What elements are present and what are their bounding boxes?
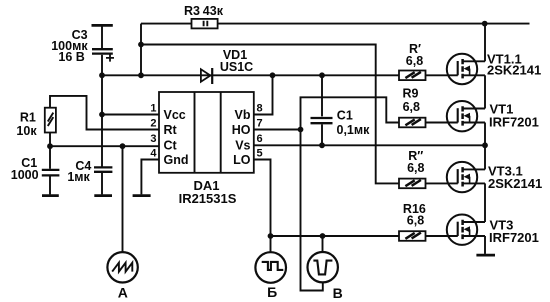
capacitor C1 1000: [42, 146, 60, 194]
svg-text:2SK2141: 2SK2141: [488, 176, 542, 191]
svg-text:HO: HO: [232, 123, 251, 137]
svg-text:Rt: Rt: [164, 123, 178, 137]
junction second rail: [138, 42, 144, 48]
capacitor C4: [94, 167, 112, 194]
wire Rt pin 2: [50, 96, 159, 130]
junction test point В top: [320, 233, 326, 239]
svg-text:6,8: 6,8: [407, 161, 424, 175]
wire Vcc vertical down to C4: [101, 75, 103, 167]
svg-text:IRF7201: IRF7201: [489, 230, 539, 245]
svg-text:C1: C1: [337, 109, 353, 123]
svg-text:8: 8: [257, 102, 263, 114]
junction Vs half-bridge: [482, 142, 488, 148]
ground under VT3: [476, 254, 495, 257]
junction C3/VD1 line: [99, 72, 105, 78]
wire Gnd pin 4: [141, 160, 159, 195]
svg-text:2SK2141: 2SK2141: [487, 63, 541, 78]
svg-text:Vs: Vs: [235, 139, 250, 153]
wire HO pin 7 to R9: [254, 97, 399, 129]
wire VT3.1 source to VT3 drain: [484, 183, 486, 222]
svg-text:0,1мк: 0,1мк: [337, 123, 371, 137]
svg-text:Vb: Vb: [235, 108, 251, 122]
wire VT1.1 drain to top rail: [484, 24, 486, 62]
wire second rail to R": [141, 45, 399, 184]
ground under C1: [42, 194, 59, 197]
junction LO/Б: [268, 233, 274, 239]
wire stub to В: [322, 236, 324, 252]
transistor VT3: [447, 215, 485, 245]
IC DA1 box: [159, 92, 254, 173]
svg-text:LO: LO: [233, 153, 251, 167]
svg-text:1: 1: [150, 102, 156, 114]
svg-text:6: 6: [257, 133, 263, 145]
label R3 43к: [184, 4, 224, 18]
junction supply/VD1 line: [138, 72, 144, 78]
junction Vcc pin 1: [99, 112, 105, 118]
junction C1/Vs: [319, 142, 325, 148]
wire R9 to VT1 gate: [426, 122, 458, 124]
junction R1/C1/Ct: [47, 143, 53, 149]
svg-text:6,8: 6,8: [406, 54, 423, 68]
svg-text:R9: R9: [403, 87, 419, 101]
svg-text:Vcc: Vcc: [164, 108, 186, 122]
wire R1 bottom to Ct line: [49, 133, 51, 147]
wire VT3 source to ground: [484, 236, 486, 254]
svg-text:43к: 43к: [203, 4, 224, 18]
svg-text:7: 7: [257, 117, 263, 129]
test point А circle: [107, 252, 137, 282]
resistor R1: [45, 108, 56, 133]
transistor VT1: [447, 101, 485, 131]
wire top supply rail through R3: [141, 23, 530, 25]
test point В circle: [308, 252, 338, 282]
svg-text:5: 5: [257, 147, 263, 159]
svg-text:US1C: US1C: [220, 60, 253, 74]
wire to test point А: [122, 146, 124, 252]
svg-text:R1: R1: [20, 110, 36, 124]
resistor R': [399, 71, 426, 81]
svg-text:В: В: [333, 285, 343, 301]
wire R" to VT3.1 gate: [426, 182, 458, 184]
junction HO: [298, 127, 304, 133]
resistor R3: [192, 19, 218, 29]
svg-text:Ct: Ct: [164, 139, 178, 153]
square wave symbol in Б: [262, 262, 284, 270]
svg-text:6,8: 6,8: [407, 214, 424, 228]
transistor VT1.1: [447, 54, 485, 84]
ground under pin 4: [133, 194, 151, 197]
svg-text:Gnd: Gnd: [164, 153, 189, 167]
resistor R": [399, 179, 426, 189]
wire Vb pin 8: [254, 75, 273, 114]
junction top rail / VT1.1 drain: [482, 21, 488, 27]
wire R' to VT1.1 gate: [426, 74, 458, 76]
svg-text:1мк: 1мк: [67, 170, 90, 184]
wire HO branch to test point В bottom: [301, 130, 323, 291]
wire VT1.1 source to VT1 drain: [484, 75, 486, 108]
wire supply left vertical: [140, 24, 142, 76]
svg-text:IR21531S: IR21531S: [179, 191, 237, 206]
wire stub to Б: [270, 236, 272, 252]
wire Ct pin 3: [50, 145, 159, 147]
capacitor C3: [92, 25, 115, 75]
svg-text:3: 3: [150, 133, 156, 145]
svg-text:6,8: 6,8: [403, 100, 420, 114]
capacitor C1 0,1мк: [311, 75, 333, 145]
svg-text:2: 2: [150, 117, 156, 129]
wire Vs pin 6 to half-bridge: [254, 144, 485, 146]
svg-text:Б: Б: [267, 284, 277, 300]
wire Vcc pin 1: [102, 114, 159, 116]
svg-text:10к: 10к: [16, 124, 37, 138]
pulse symbol in В: [313, 261, 332, 275]
wire LO pin 5: [254, 160, 271, 237]
wire LO line to R16: [271, 235, 399, 237]
junction bootstrap C1 top: [319, 72, 325, 78]
sawtooth symbol in А: [112, 263, 132, 272]
diode VD1: [201, 68, 212, 84]
junction Vb/VD1 cathode: [270, 72, 276, 78]
svg-text:IRF7201: IRF7201: [489, 114, 539, 129]
svg-text:А: А: [118, 284, 128, 300]
junction Ct/test point А: [120, 143, 126, 149]
resistor R16: [399, 231, 426, 241]
wire R16 to VT3 gate: [426, 235, 458, 237]
svg-text:1000: 1000: [11, 168, 39, 182]
svg-text:16 В: 16 В: [58, 50, 84, 64]
resistor R9: [399, 118, 426, 128]
transistor VT3.1: [447, 162, 485, 192]
svg-text:4: 4: [150, 147, 157, 159]
wire VD1 anode line (Vcc to R'): [102, 74, 399, 76]
svg-text:R3: R3: [184, 4, 200, 18]
test point Б circle: [255, 252, 286, 283]
wire VT1 source to Vs: [484, 123, 486, 170]
ground under C4: [94, 194, 112, 197]
